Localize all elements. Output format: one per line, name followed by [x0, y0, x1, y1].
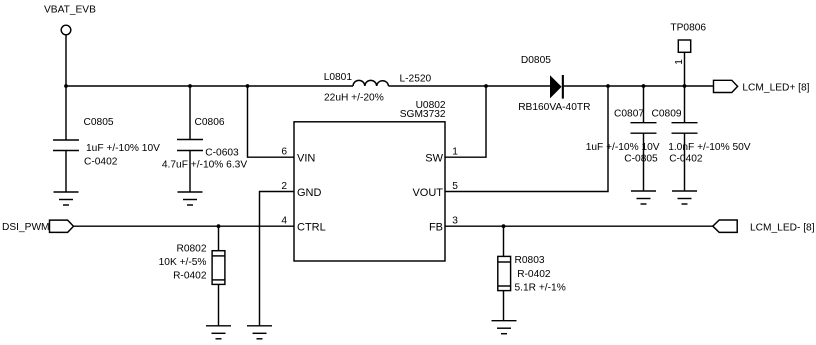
junction R0802 [217, 224, 221, 228]
junction VBAT/C0805 [64, 84, 68, 88]
ground GND pin [247, 326, 272, 339]
svg-text:VOUT: VOUT [412, 187, 443, 199]
svg-text:L0801: L0801 [324, 72, 353, 83]
svg-text:C0806: C0806 [195, 117, 225, 128]
wire rail to diode [389, 85, 551, 87]
wire VBAT rail [66, 85, 353, 87]
pin 1 SW [425, 147, 458, 165]
junction TP/C0809 [683, 84, 687, 88]
capacitor C0806 [162, 86, 247, 192]
svg-text:VIN: VIN [297, 153, 315, 165]
test point TP0806 [670, 23, 706, 87]
svg-text:3: 3 [452, 216, 458, 227]
svg-text:L-2520: L-2520 [400, 74, 432, 85]
ground C0809 [672, 191, 697, 204]
svg-text:1uF +/-10% 10V: 1uF +/-10% 10V [86, 143, 160, 154]
svg-text:10K +/-5%: 10K +/-5% [159, 257, 207, 268]
wire diode to LED+ port [564, 85, 714, 87]
svg-text:FB: FB [429, 222, 443, 234]
pin 5 VOUT [412, 181, 458, 199]
ground C0805 [54, 192, 79, 205]
svg-text:R0802: R0802 [176, 244, 206, 255]
svg-text:C-0603: C-0603 [205, 148, 239, 159]
svg-text:R0803: R0803 [515, 255, 545, 266]
svg-text:6: 6 [281, 147, 287, 158]
junction SW branch [484, 84, 488, 88]
wire VIN branch [248, 86, 295, 157]
wire VOUT branch [445, 86, 608, 192]
ground R0802 [206, 326, 231, 339]
power terminal VBAT_EVB [44, 4, 96, 34]
svg-text:1uF +/-10% 10V: 1uF +/-10% 10V [586, 142, 660, 153]
svg-text:C-0402: C-0402 [669, 153, 703, 164]
svg-text:SW: SW [425, 153, 443, 165]
pin 4 CTRL [281, 216, 325, 234]
port LCM_LED- [713, 220, 815, 234]
wire VBAT_EVB down [65, 35, 67, 86]
svg-text:C0805: C0805 [84, 117, 114, 128]
ground R0803 [492, 321, 517, 334]
resistor R0803 [498, 226, 566, 321]
svg-text:D0805: D0805 [521, 55, 551, 66]
capacitor C0805 [53, 86, 160, 192]
svg-text:DSI_PWM: DSI_PWM [2, 222, 50, 233]
wire FB to LED- port [445, 225, 713, 227]
svg-text:5.1R +/-1%: 5.1R +/-1% [515, 282, 566, 293]
wire DSI_PWM to CTRL [74, 225, 295, 227]
ground C0806 [178, 192, 203, 205]
svg-text:22uH +/-20%: 22uH +/-20% [324, 92, 384, 103]
junction C0807 [642, 84, 646, 88]
svg-text:4.7uF +/-10% 6.3V: 4.7uF +/-10% 6.3V [162, 159, 247, 170]
inductor L0801 [324, 72, 432, 103]
pin 3 FB [429, 216, 458, 234]
junction VOUT branch [606, 84, 610, 88]
ground C0807 [631, 191, 656, 204]
svg-text:CTRL: CTRL [297, 222, 326, 234]
wire GND pin down [260, 192, 295, 326]
pin 2 GND [281, 181, 321, 199]
svg-text:SGM3732: SGM3732 [400, 109, 446, 120]
svg-text:LCM_LED- [8]: LCM_LED- [8] [750, 223, 815, 234]
pin 6 VIN [281, 147, 315, 165]
wire SW to rail [445, 86, 486, 157]
junction R0803 [502, 224, 506, 228]
svg-text:5: 5 [452, 181, 458, 192]
svg-text:R-0402: R-0402 [173, 270, 207, 281]
port DSI_PWM [2, 220, 74, 233]
svg-text:LCM_LED+ [8]: LCM_LED+ [8] [742, 83, 809, 94]
svg-text:R-0402: R-0402 [517, 269, 551, 280]
svg-text:RB160VA-40TR: RB160VA-40TR [518, 102, 590, 113]
svg-text:TP0806: TP0806 [670, 23, 706, 34]
svg-text:1: 1 [452, 147, 458, 158]
svg-text:GND: GND [297, 187, 322, 199]
svg-text:VBAT_EVB: VBAT_EVB [44, 4, 96, 15]
ic U0802 SGM3732 [294, 100, 446, 261]
svg-text:4: 4 [281, 216, 287, 227]
junction VIN branch [246, 84, 250, 88]
svg-text:C0809: C0809 [652, 108, 682, 119]
svg-text:C-0402: C-0402 [84, 157, 118, 168]
capacitor C0809 [652, 86, 751, 191]
svg-text:2: 2 [281, 181, 287, 192]
diode D0805 [518, 55, 590, 113]
port LCM_LED+ [714, 80, 810, 93]
svg-text:1: 1 [674, 59, 685, 65]
svg-text:C-0805: C-0805 [624, 153, 658, 164]
svg-text:1.0nF +/-10% 50V: 1.0nF +/-10% 50V [668, 142, 751, 153]
svg-text:C0807: C0807 [614, 108, 644, 119]
capacitor C0807 [586, 86, 660, 191]
junction C0806 [188, 84, 192, 88]
resistor R0802 [159, 226, 225, 326]
